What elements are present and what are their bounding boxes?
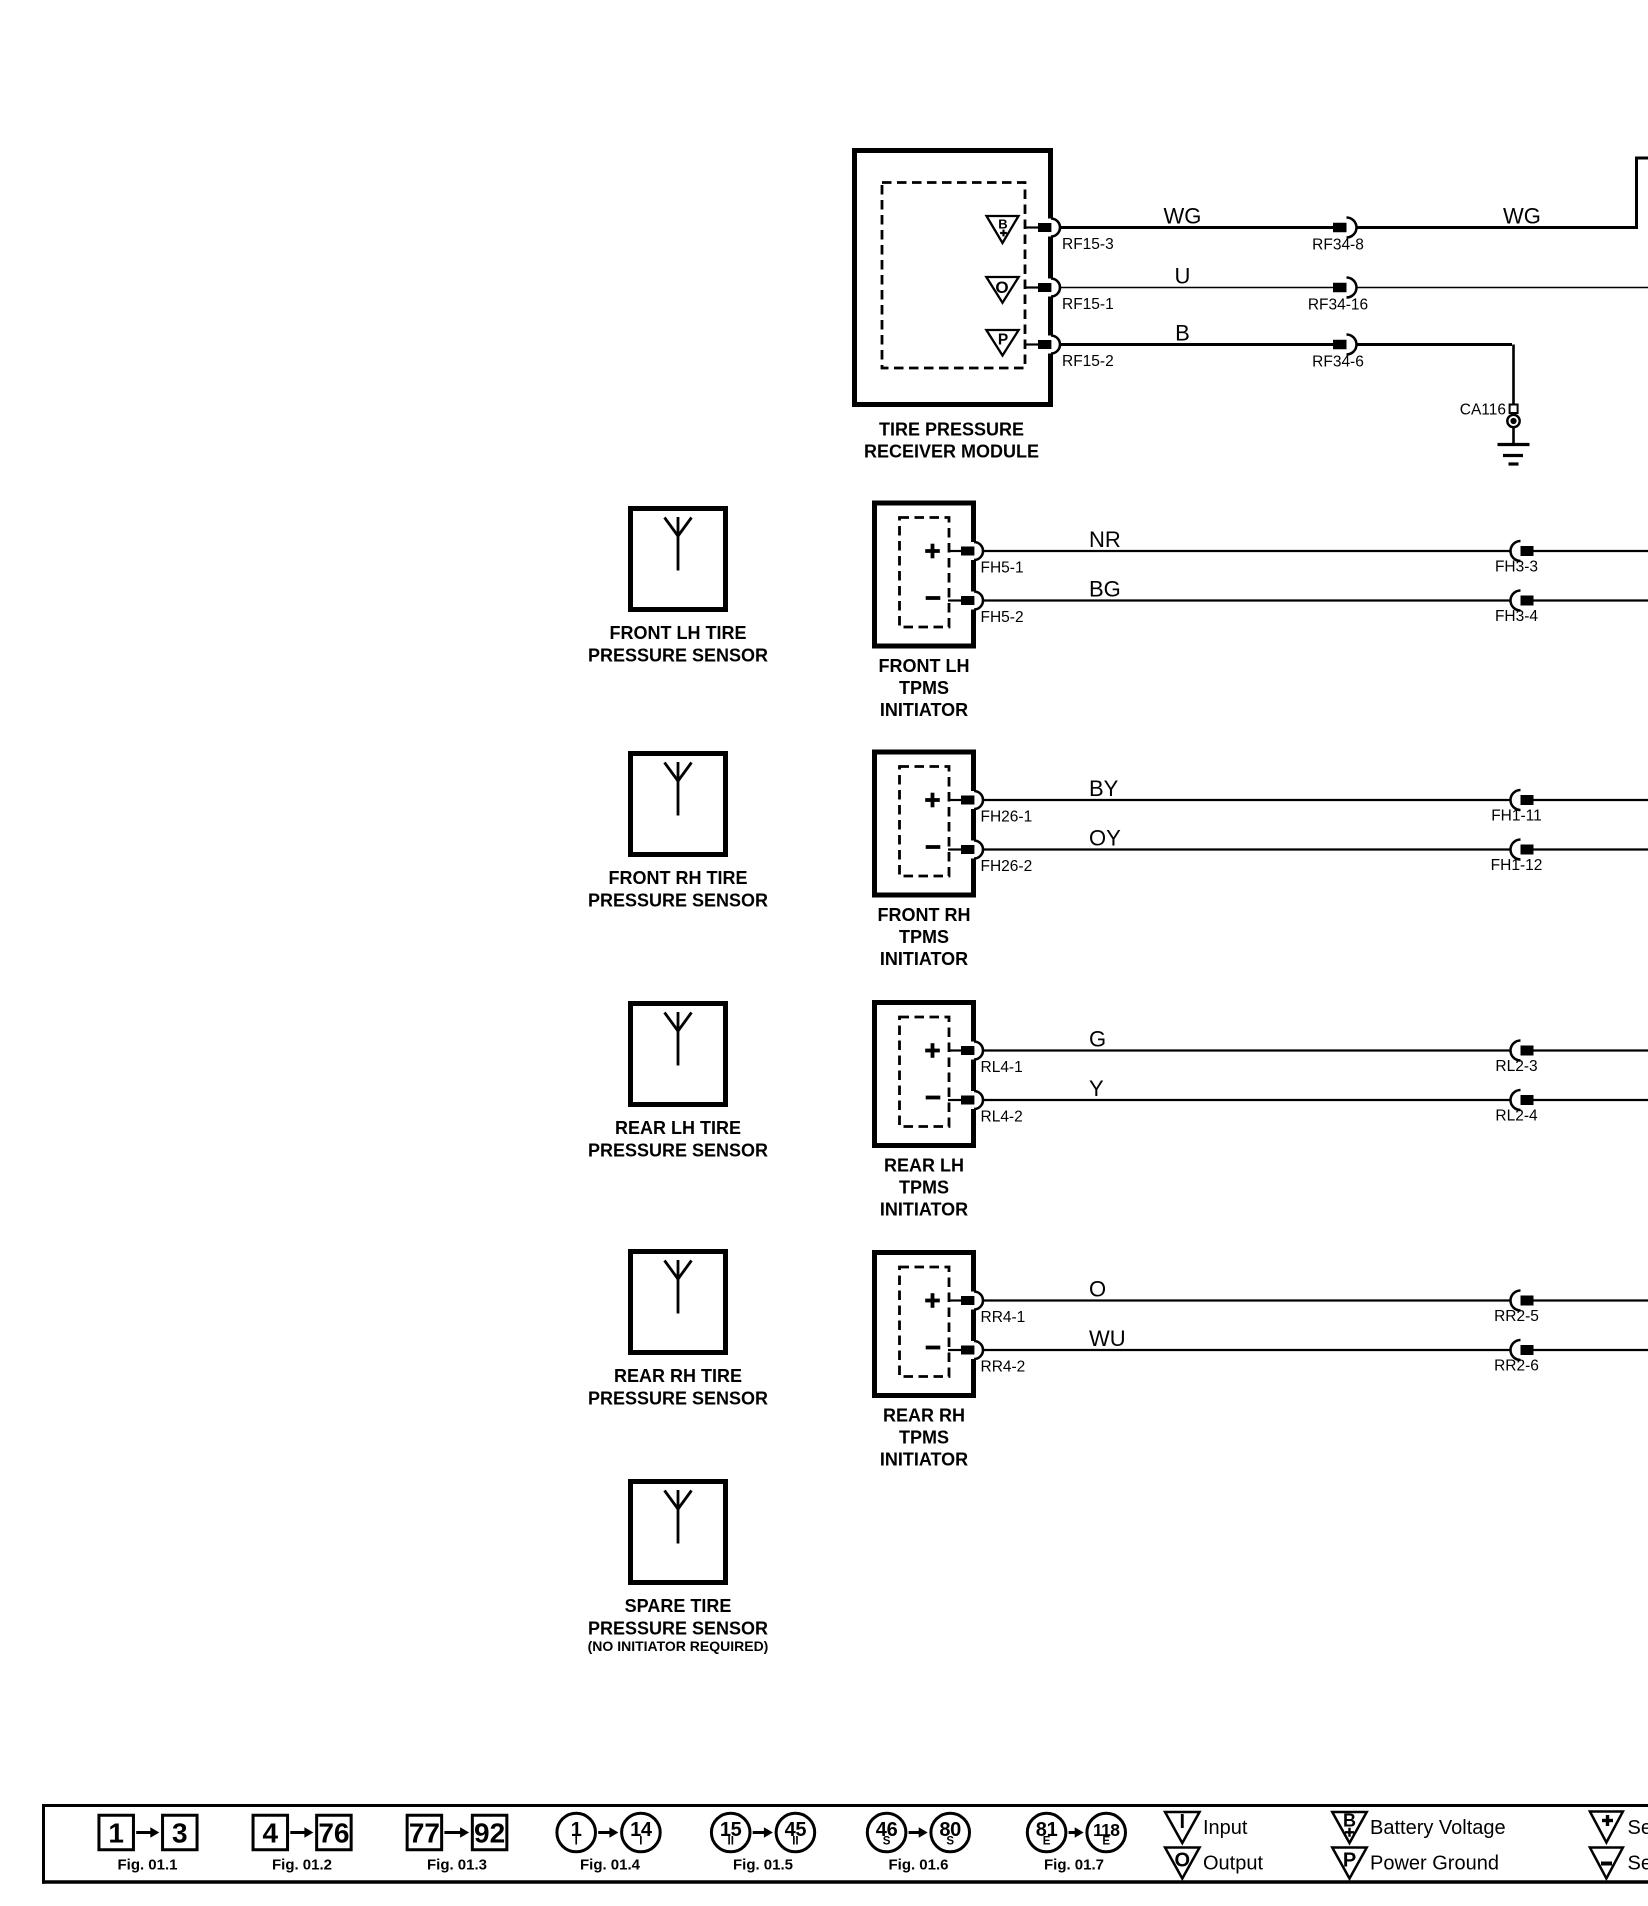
svg-text:INITIATOR: INITIATOR <box>880 949 968 969</box>
svg-text:TPMS: TPMS <box>899 927 949 947</box>
svg-text:P: P <box>998 332 1008 349</box>
svg-text:Sensor: Sensor <box>1628 1817 1648 1839</box>
svg-text:FRONT LH: FRONT LH <box>879 656 970 676</box>
svg-text:RF34-8: RF34-8 <box>1312 237 1364 254</box>
svg-text:B: B <box>998 217 1007 232</box>
svg-text:Fig. 01.2: Fig. 01.2 <box>272 1857 332 1874</box>
svg-text:TPMS: TPMS <box>899 1178 949 1198</box>
svg-text:92: 92 <box>474 1817 505 1848</box>
svg-text:PRESSURE SENSOR: PRESSURE SENSOR <box>588 1141 768 1161</box>
svg-text:FRONT RH: FRONT RH <box>878 905 971 925</box>
svg-text:NR: NR <box>1089 527 1121 552</box>
svg-text:Fig. 01.1: Fig. 01.1 <box>117 1857 177 1874</box>
svg-text:RF15-3: RF15-3 <box>1062 236 1114 253</box>
svg-text:G: G <box>1089 1027 1106 1052</box>
svg-text:II: II <box>792 1836 798 1848</box>
svg-text:REAR RH TIRE: REAR RH TIRE <box>614 1366 742 1386</box>
svg-text:II: II <box>728 1836 734 1848</box>
svg-text:RR4-2: RR4-2 <box>981 1359 1026 1376</box>
svg-text:WG: WG <box>1164 204 1202 229</box>
svg-text:I: I <box>1180 1811 1186 1833</box>
svg-text:OY: OY <box>1089 826 1121 851</box>
svg-text:1: 1 <box>108 1817 124 1848</box>
svg-text:RR2-5: RR2-5 <box>1494 1308 1539 1325</box>
svg-text:Battery Voltage: Battery Voltage <box>1370 1817 1506 1839</box>
svg-text:4: 4 <box>263 1817 279 1848</box>
svg-text:TPMS: TPMS <box>899 678 949 698</box>
svg-text:Fig. 01.6: Fig. 01.6 <box>888 1857 948 1874</box>
svg-text:FH26-1: FH26-1 <box>981 809 1033 826</box>
svg-text:TIRE PRESSURE: TIRE PRESSURE <box>879 420 1024 440</box>
svg-text:CA116: CA116 <box>1460 402 1506 419</box>
svg-text:P: P <box>1343 1850 1356 1872</box>
svg-text:RR2-6: RR2-6 <box>1494 1358 1539 1375</box>
svg-text:FH5-2: FH5-2 <box>981 609 1024 626</box>
svg-text:Input: Input <box>1203 1817 1248 1839</box>
svg-text:O: O <box>1089 1277 1106 1302</box>
svg-text:PRESSURE SENSOR: PRESSURE SENSOR <box>588 1619 768 1639</box>
svg-text:Fig. 01.4: Fig. 01.4 <box>580 1857 641 1874</box>
svg-text:REAR LH TIRE: REAR LH TIRE <box>615 1118 741 1138</box>
svg-text:BY: BY <box>1089 776 1119 801</box>
svg-text:RF15-1: RF15-1 <box>1062 296 1114 313</box>
svg-text:WG: WG <box>1503 204 1541 229</box>
svg-text:S: S <box>946 1836 954 1848</box>
svg-text:REAR LH: REAR LH <box>884 1156 964 1176</box>
svg-text:I: I <box>639 1836 642 1848</box>
svg-text:FRONT LH TIRE: FRONT LH TIRE <box>610 623 747 643</box>
svg-text:FH3-3: FH3-3 <box>1495 559 1538 576</box>
svg-text:TPMS: TPMS <box>899 1428 949 1448</box>
svg-text:WU: WU <box>1089 1326 1126 1351</box>
svg-text:E: E <box>1043 1836 1051 1848</box>
svg-text:RL2-4: RL2-4 <box>1495 1108 1538 1125</box>
svg-text:Output: Output <box>1203 1852 1263 1874</box>
svg-text:FH26-2: FH26-2 <box>981 858 1033 875</box>
svg-text:INITIATOR: INITIATOR <box>880 1450 968 1470</box>
svg-text:I: I <box>575 1836 578 1848</box>
svg-text:E: E <box>1102 1836 1110 1848</box>
svg-text:S: S <box>883 1836 891 1848</box>
svg-text:Power Ground: Power Ground <box>1370 1852 1499 1874</box>
svg-text:FH1-11: FH1-11 <box>1491 808 1542 825</box>
svg-text:(NO INITIATOR REQUIRED): (NO INITIATOR REQUIRED) <box>588 1638 769 1654</box>
svg-text:Fig. 01.3: Fig. 01.3 <box>427 1857 487 1874</box>
svg-text:U: U <box>1175 264 1191 289</box>
svg-text:SPARE TIRE: SPARE TIRE <box>625 1596 732 1616</box>
svg-text:FH3-4: FH3-4 <box>1495 608 1538 625</box>
svg-text:RL2-3: RL2-3 <box>1495 1058 1537 1075</box>
svg-text:77: 77 <box>409 1817 440 1848</box>
svg-text:B: B <box>1175 321 1190 346</box>
svg-text:RF15-2: RF15-2 <box>1062 353 1114 370</box>
svg-text:Sensor: Sensor <box>1628 1852 1648 1874</box>
svg-text:76: 76 <box>318 1817 349 1848</box>
svg-text:RECEIVER MODULE: RECEIVER MODULE <box>864 442 1039 462</box>
svg-text:BG: BG <box>1089 577 1121 602</box>
svg-text:B: B <box>1343 1811 1356 1831</box>
svg-text:FRONT RH TIRE: FRONT RH TIRE <box>609 868 748 888</box>
svg-text:O: O <box>1175 1850 1191 1872</box>
svg-text:INITIATOR: INITIATOR <box>880 1200 968 1220</box>
svg-text:FH1-12: FH1-12 <box>1491 857 1543 874</box>
svg-text:PRESSURE SENSOR: PRESSURE SENSOR <box>588 891 768 911</box>
svg-text:INITIATOR: INITIATOR <box>880 700 968 720</box>
svg-text:REAR RH: REAR RH <box>883 1406 965 1426</box>
svg-text:FH5-1: FH5-1 <box>981 560 1024 577</box>
svg-text:PRESSURE SENSOR: PRESSURE SENSOR <box>588 1389 768 1409</box>
svg-text:Y: Y <box>1089 1076 1104 1101</box>
svg-text:3: 3 <box>172 1817 188 1848</box>
svg-text:RR4-1: RR4-1 <box>981 1309 1026 1326</box>
svg-text:RL4-2: RL4-2 <box>981 1109 1023 1126</box>
svg-text:O: O <box>995 278 1008 297</box>
svg-text:PRESSURE SENSOR: PRESSURE SENSOR <box>588 646 768 666</box>
svg-text:Fig. 01.7: Fig. 01.7 <box>1044 1857 1104 1874</box>
svg-text:RL4-1: RL4-1 <box>981 1059 1023 1076</box>
svg-text:Fig. 01.5: Fig. 01.5 <box>733 1857 793 1874</box>
svg-text:RF34-6: RF34-6 <box>1312 354 1364 371</box>
svg-text:RF34-16: RF34-16 <box>1308 297 1368 314</box>
